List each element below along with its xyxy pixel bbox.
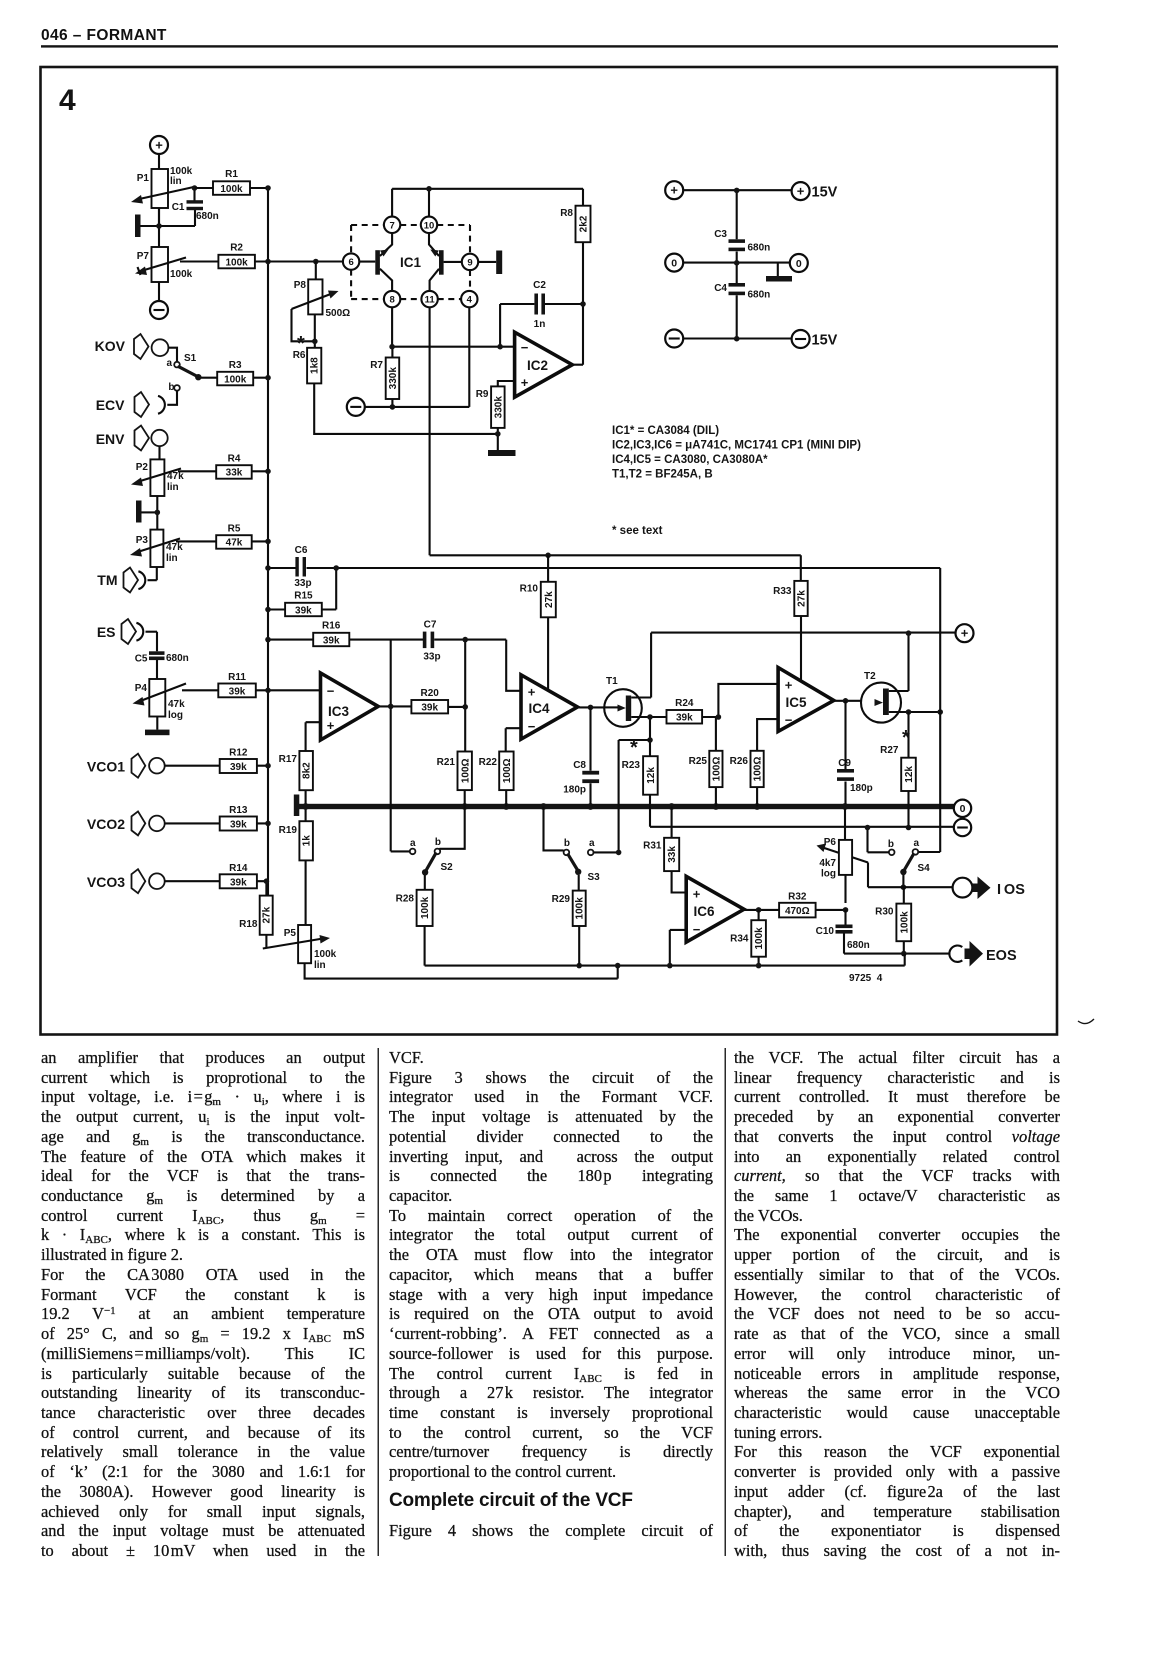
svg-text:+: +	[327, 718, 335, 733]
svg-text:+: +	[797, 184, 805, 199]
svg-text:470Ω: 470Ω	[785, 906, 810, 917]
svg-text:R2: R2	[230, 243, 243, 254]
svg-text:R13: R13	[229, 805, 248, 816]
svg-text:7: 7	[389, 220, 394, 231]
svg-text:IC4: IC4	[529, 701, 551, 716]
svg-text:12k: 12k	[646, 767, 657, 784]
svg-text:39k: 39k	[295, 605, 312, 616]
svg-text:−: −	[785, 713, 793, 728]
svg-text:39k: 39k	[421, 703, 438, 714]
svg-text:100k: 100k	[420, 896, 431, 919]
svg-text:2k2: 2k2	[579, 215, 590, 232]
svg-text:47k: 47k	[166, 542, 183, 553]
svg-text:ES: ES	[97, 624, 116, 640]
svg-text:−: −	[521, 340, 529, 355]
svg-text:100k: 100k	[899, 911, 910, 934]
svg-text:P2: P2	[136, 462, 149, 473]
svg-text:R27: R27	[880, 745, 899, 756]
svg-text:+: +	[693, 887, 701, 902]
svg-text:47k: 47k	[226, 538, 243, 549]
svg-text:0: 0	[671, 257, 677, 269]
svg-text:9: 9	[467, 257, 472, 268]
svg-text:R31: R31	[643, 841, 662, 852]
svg-text:IC2,IC3,IC6 = μA741C, MC1741 C: IC2,IC3,IC6 = μA741C, MC1741 CP1 (MINI D…	[612, 440, 861, 452]
svg-text:+: +	[670, 183, 678, 198]
svg-text:27k: 27k	[262, 906, 273, 923]
svg-text:ECV: ECV	[96, 397, 125, 413]
svg-text:15V: 15V	[812, 185, 838, 201]
svg-text:C5: C5	[135, 654, 148, 665]
svg-text:S3: S3	[588, 872, 601, 883]
svg-text:a: a	[166, 358, 172, 369]
svg-text:R21: R21	[437, 757, 456, 768]
svg-text:T1,T2 = BF245A, B: T1,T2 = BF245A, B	[612, 469, 713, 481]
svg-text:33p: 33p	[423, 652, 440, 663]
svg-text:C4: C4	[714, 283, 727, 294]
svg-text:39k: 39k	[230, 762, 247, 773]
svg-text:100Ω: 100Ω	[711, 757, 722, 782]
svg-text:b: b	[168, 382, 174, 393]
svg-text:100k: 100k	[170, 269, 193, 280]
svg-text:R18: R18	[239, 919, 258, 930]
svg-text:C3: C3	[714, 229, 727, 240]
svg-text:P6: P6	[824, 837, 837, 848]
svg-text:C1: C1	[172, 202, 185, 213]
svg-text:0: 0	[960, 803, 966, 815]
svg-text:C8: C8	[573, 760, 586, 771]
svg-text:P5: P5	[284, 928, 297, 939]
svg-text:P1: P1	[137, 173, 150, 184]
svg-text:100k: 100k	[224, 374, 247, 385]
svg-text:C7: C7	[424, 620, 437, 631]
svg-text:39k: 39k	[230, 820, 247, 831]
svg-text:R10: R10	[520, 584, 539, 595]
svg-text:8: 8	[389, 295, 394, 306]
svg-text:4: 4	[467, 295, 473, 306]
svg-text:680n: 680n	[196, 211, 219, 222]
svg-text:100k: 100k	[314, 949, 337, 960]
svg-text:47k: 47k	[167, 471, 184, 482]
svg-text:IC6: IC6	[694, 904, 716, 919]
svg-text:R1: R1	[225, 169, 238, 180]
svg-text:500Ω: 500Ω	[326, 308, 351, 319]
svg-text:IC2: IC2	[527, 358, 548, 373]
svg-text:S1: S1	[184, 353, 197, 364]
svg-text:lin: lin	[167, 482, 179, 493]
svg-text:33k: 33k	[226, 468, 243, 479]
svg-text:11: 11	[425, 295, 436, 306]
svg-text:4k7: 4k7	[819, 858, 836, 869]
svg-text:100k: 100k	[225, 257, 248, 268]
svg-text:−: −	[528, 719, 536, 734]
svg-text:C9: C9	[838, 758, 851, 769]
svg-text:8k2: 8k2	[302, 762, 313, 779]
svg-text:100Ω: 100Ω	[502, 758, 513, 783]
svg-text:C6: C6	[295, 545, 308, 556]
svg-text:KOV: KOV	[95, 338, 126, 354]
svg-text:+: +	[528, 685, 536, 700]
svg-text:R17: R17	[279, 754, 298, 765]
svg-text:* see text: * see text	[612, 525, 663, 537]
svg-text:a: a	[913, 838, 919, 849]
svg-text:33p: 33p	[294, 578, 311, 589]
svg-text:330k: 330k	[493, 396, 504, 419]
svg-text:100k: 100k	[575, 897, 586, 920]
svg-text:680n: 680n	[748, 243, 771, 254]
svg-text:27k: 27k	[797, 590, 808, 607]
svg-text:180p: 180p	[563, 785, 586, 796]
svg-text:−: −	[693, 922, 701, 937]
svg-text:*: *	[630, 737, 638, 759]
svg-text:+: +	[155, 138, 163, 153]
svg-text:R14: R14	[229, 863, 248, 874]
svg-text:R25: R25	[689, 756, 708, 767]
svg-text:0: 0	[796, 258, 802, 270]
svg-text:lin: lin	[170, 176, 182, 187]
svg-text:lin: lin	[166, 553, 178, 564]
svg-text:R32: R32	[788, 892, 807, 903]
svg-text:T1: T1	[606, 676, 618, 687]
svg-text:IC3: IC3	[328, 704, 350, 719]
svg-text:VCO1: VCO1	[87, 759, 125, 775]
svg-text:R16: R16	[322, 621, 341, 632]
svg-text:+: +	[961, 626, 969, 641]
svg-text:I OS: I OS	[997, 882, 1025, 898]
svg-text:100k: 100k	[220, 184, 243, 195]
svg-text:R22: R22	[479, 757, 498, 768]
svg-text:P4: P4	[135, 683, 148, 694]
svg-text:+: +	[521, 375, 529, 390]
svg-text:b: b	[564, 838, 570, 849]
svg-text:P7: P7	[137, 251, 150, 262]
svg-text:680n: 680n	[748, 290, 771, 301]
svg-text:R4: R4	[228, 454, 241, 465]
svg-text:log: log	[168, 710, 183, 721]
svg-text:R19: R19	[279, 825, 298, 836]
svg-text:C10: C10	[816, 926, 835, 937]
svg-text:47k: 47k	[168, 699, 185, 710]
svg-text:R7: R7	[370, 360, 383, 371]
svg-text:IC1* = CA3084 (DIL): IC1* = CA3084 (DIL)	[612, 425, 719, 437]
svg-text:IC1: IC1	[400, 255, 422, 270]
svg-text:P8: P8	[294, 280, 307, 291]
svg-text:T2: T2	[864, 671, 876, 682]
svg-text:R30: R30	[875, 907, 894, 918]
svg-text:R15: R15	[294, 591, 313, 602]
svg-text:b: b	[435, 837, 441, 848]
svg-text:+: +	[785, 678, 793, 693]
svg-text:a: a	[589, 838, 595, 849]
svg-text:680n: 680n	[166, 653, 189, 664]
svg-text:100Ω: 100Ω	[753, 757, 764, 782]
svg-text:39k: 39k	[323, 635, 340, 646]
svg-text:R11: R11	[228, 672, 246, 683]
svg-text:a: a	[410, 838, 416, 849]
svg-text:C2: C2	[533, 280, 546, 291]
svg-text:39k: 39k	[676, 713, 693, 724]
svg-text:−: −	[327, 684, 335, 699]
svg-text:R24: R24	[675, 698, 694, 709]
svg-text:39k: 39k	[229, 686, 246, 697]
svg-text:*: *	[297, 333, 305, 355]
svg-text:R8: R8	[560, 208, 573, 219]
svg-text:R28: R28	[396, 894, 415, 905]
svg-text:ENV: ENV	[96, 431, 125, 447]
svg-text:IC5: IC5	[786, 695, 808, 710]
svg-text:9725 4: 9725 4	[849, 973, 883, 984]
svg-text:27k: 27k	[544, 591, 555, 608]
svg-text:R3: R3	[229, 360, 242, 371]
svg-text:R26: R26	[730, 756, 749, 767]
svg-text:330k: 330k	[388, 367, 399, 390]
svg-text:TM: TM	[97, 572, 117, 588]
svg-text:IC4,IC5 = CA3080, CA3080A*: IC4,IC5 = CA3080, CA3080A*	[612, 454, 768, 466]
svg-text:100Ω: 100Ω	[460, 758, 471, 783]
svg-text:180p: 180p	[850, 783, 873, 794]
svg-text:R33: R33	[773, 586, 792, 597]
svg-text:12k: 12k	[904, 766, 915, 783]
svg-text:R20: R20	[421, 688, 440, 699]
svg-text:S4: S4	[918, 863, 931, 874]
svg-text:*: *	[902, 727, 910, 749]
svg-text:VCO2: VCO2	[87, 816, 125, 832]
svg-text:R23: R23	[622, 760, 641, 771]
svg-text:6: 6	[348, 257, 353, 268]
svg-text:log: log	[821, 869, 836, 880]
svg-text:4: 4	[59, 84, 76, 117]
svg-text:10: 10	[424, 220, 435, 231]
svg-text:b: b	[888, 839, 894, 850]
svg-text:P3: P3	[136, 535, 149, 546]
svg-text:R12: R12	[229, 748, 248, 759]
svg-text:VCO3: VCO3	[87, 874, 125, 890]
svg-text:100k: 100k	[754, 927, 765, 950]
svg-text:1n: 1n	[534, 319, 546, 330]
svg-text:R9: R9	[476, 389, 489, 400]
svg-text:R29: R29	[552, 894, 571, 905]
svg-text:15V: 15V	[812, 333, 838, 349]
svg-text:S2: S2	[441, 862, 454, 873]
svg-text:EOS: EOS	[986, 948, 1017, 964]
svg-text:39k: 39k	[230, 877, 247, 888]
svg-text:lin: lin	[314, 960, 326, 971]
svg-text:R5: R5	[228, 524, 241, 535]
svg-text:33k: 33k	[667, 846, 678, 863]
svg-text:R34: R34	[730, 934, 749, 945]
svg-text:680n: 680n	[847, 940, 870, 951]
svg-text:1k8: 1k8	[310, 357, 321, 374]
svg-text:1k: 1k	[302, 835, 313, 847]
